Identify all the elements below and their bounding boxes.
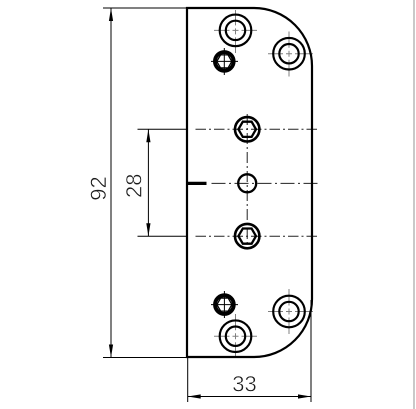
- arrow right 33: [298, 394, 311, 398]
- center line row through hex hole H6 (y=236): [138, 235, 189, 237]
- vertical center line of middle column (x=247): [246, 114, 248, 248]
- bottom extension line for 92: [103, 357, 188, 359]
- dimension line 33: [188, 396, 311, 398]
- center line row through middle hole H5 (y=183) with thick weld tick: [187, 182, 207, 185]
- counterbored hole H1 inner circle: [226, 21, 245, 40]
- arrow down 92: [109, 345, 113, 358]
- plate outline: [187, 8, 312, 357]
- top extension line for 92: [103, 7, 188, 9]
- cross lines hole H1: [214, 29, 257, 31]
- cross lines hole H2: [268, 53, 313, 55]
- counterbored hole H8 inner circle: [279, 302, 298, 321]
- hex head hole H4: [235, 117, 259, 141]
- counterbored hole H2 outer circle: [273, 38, 305, 70]
- left extension line for 33: [187, 358, 189, 402]
- cross lines hole H8: [268, 311, 313, 313]
- svg-text:28: 28: [121, 174, 146, 198]
- hex head hole H6: [235, 224, 259, 248]
- arrow up 28: [146, 129, 150, 142]
- cross lines hole H9: [214, 335, 257, 337]
- svg-text:92: 92: [86, 176, 111, 200]
- counterbored hole H2 inner circle: [279, 44, 298, 63]
- dimension line 92: [110, 8, 112, 358]
- counterbored hole H9 inner circle: [226, 327, 245, 346]
- counterbored hole H1 outer circle: [220, 15, 252, 47]
- center line row through hex hole H4 (y=129): [138, 128, 189, 130]
- hex socket screw H7: [211, 291, 238, 318]
- svg-text:33: 33: [232, 372, 256, 397]
- counterbored hole H9 outer circle: [220, 320, 252, 352]
- right panel border line: [413, 0, 415, 409]
- plain hole H5: [238, 174, 256, 192]
- dimension line 28: [147, 129, 149, 236]
- counterbored hole H8 outer circle: [273, 296, 305, 328]
- hex socket screw H3: [211, 48, 238, 75]
- arrow left 33: [188, 394, 201, 398]
- arrow down 28: [146, 223, 150, 236]
- right extension line for 33: [310, 300, 312, 402]
- arrow up 92: [109, 8, 113, 21]
